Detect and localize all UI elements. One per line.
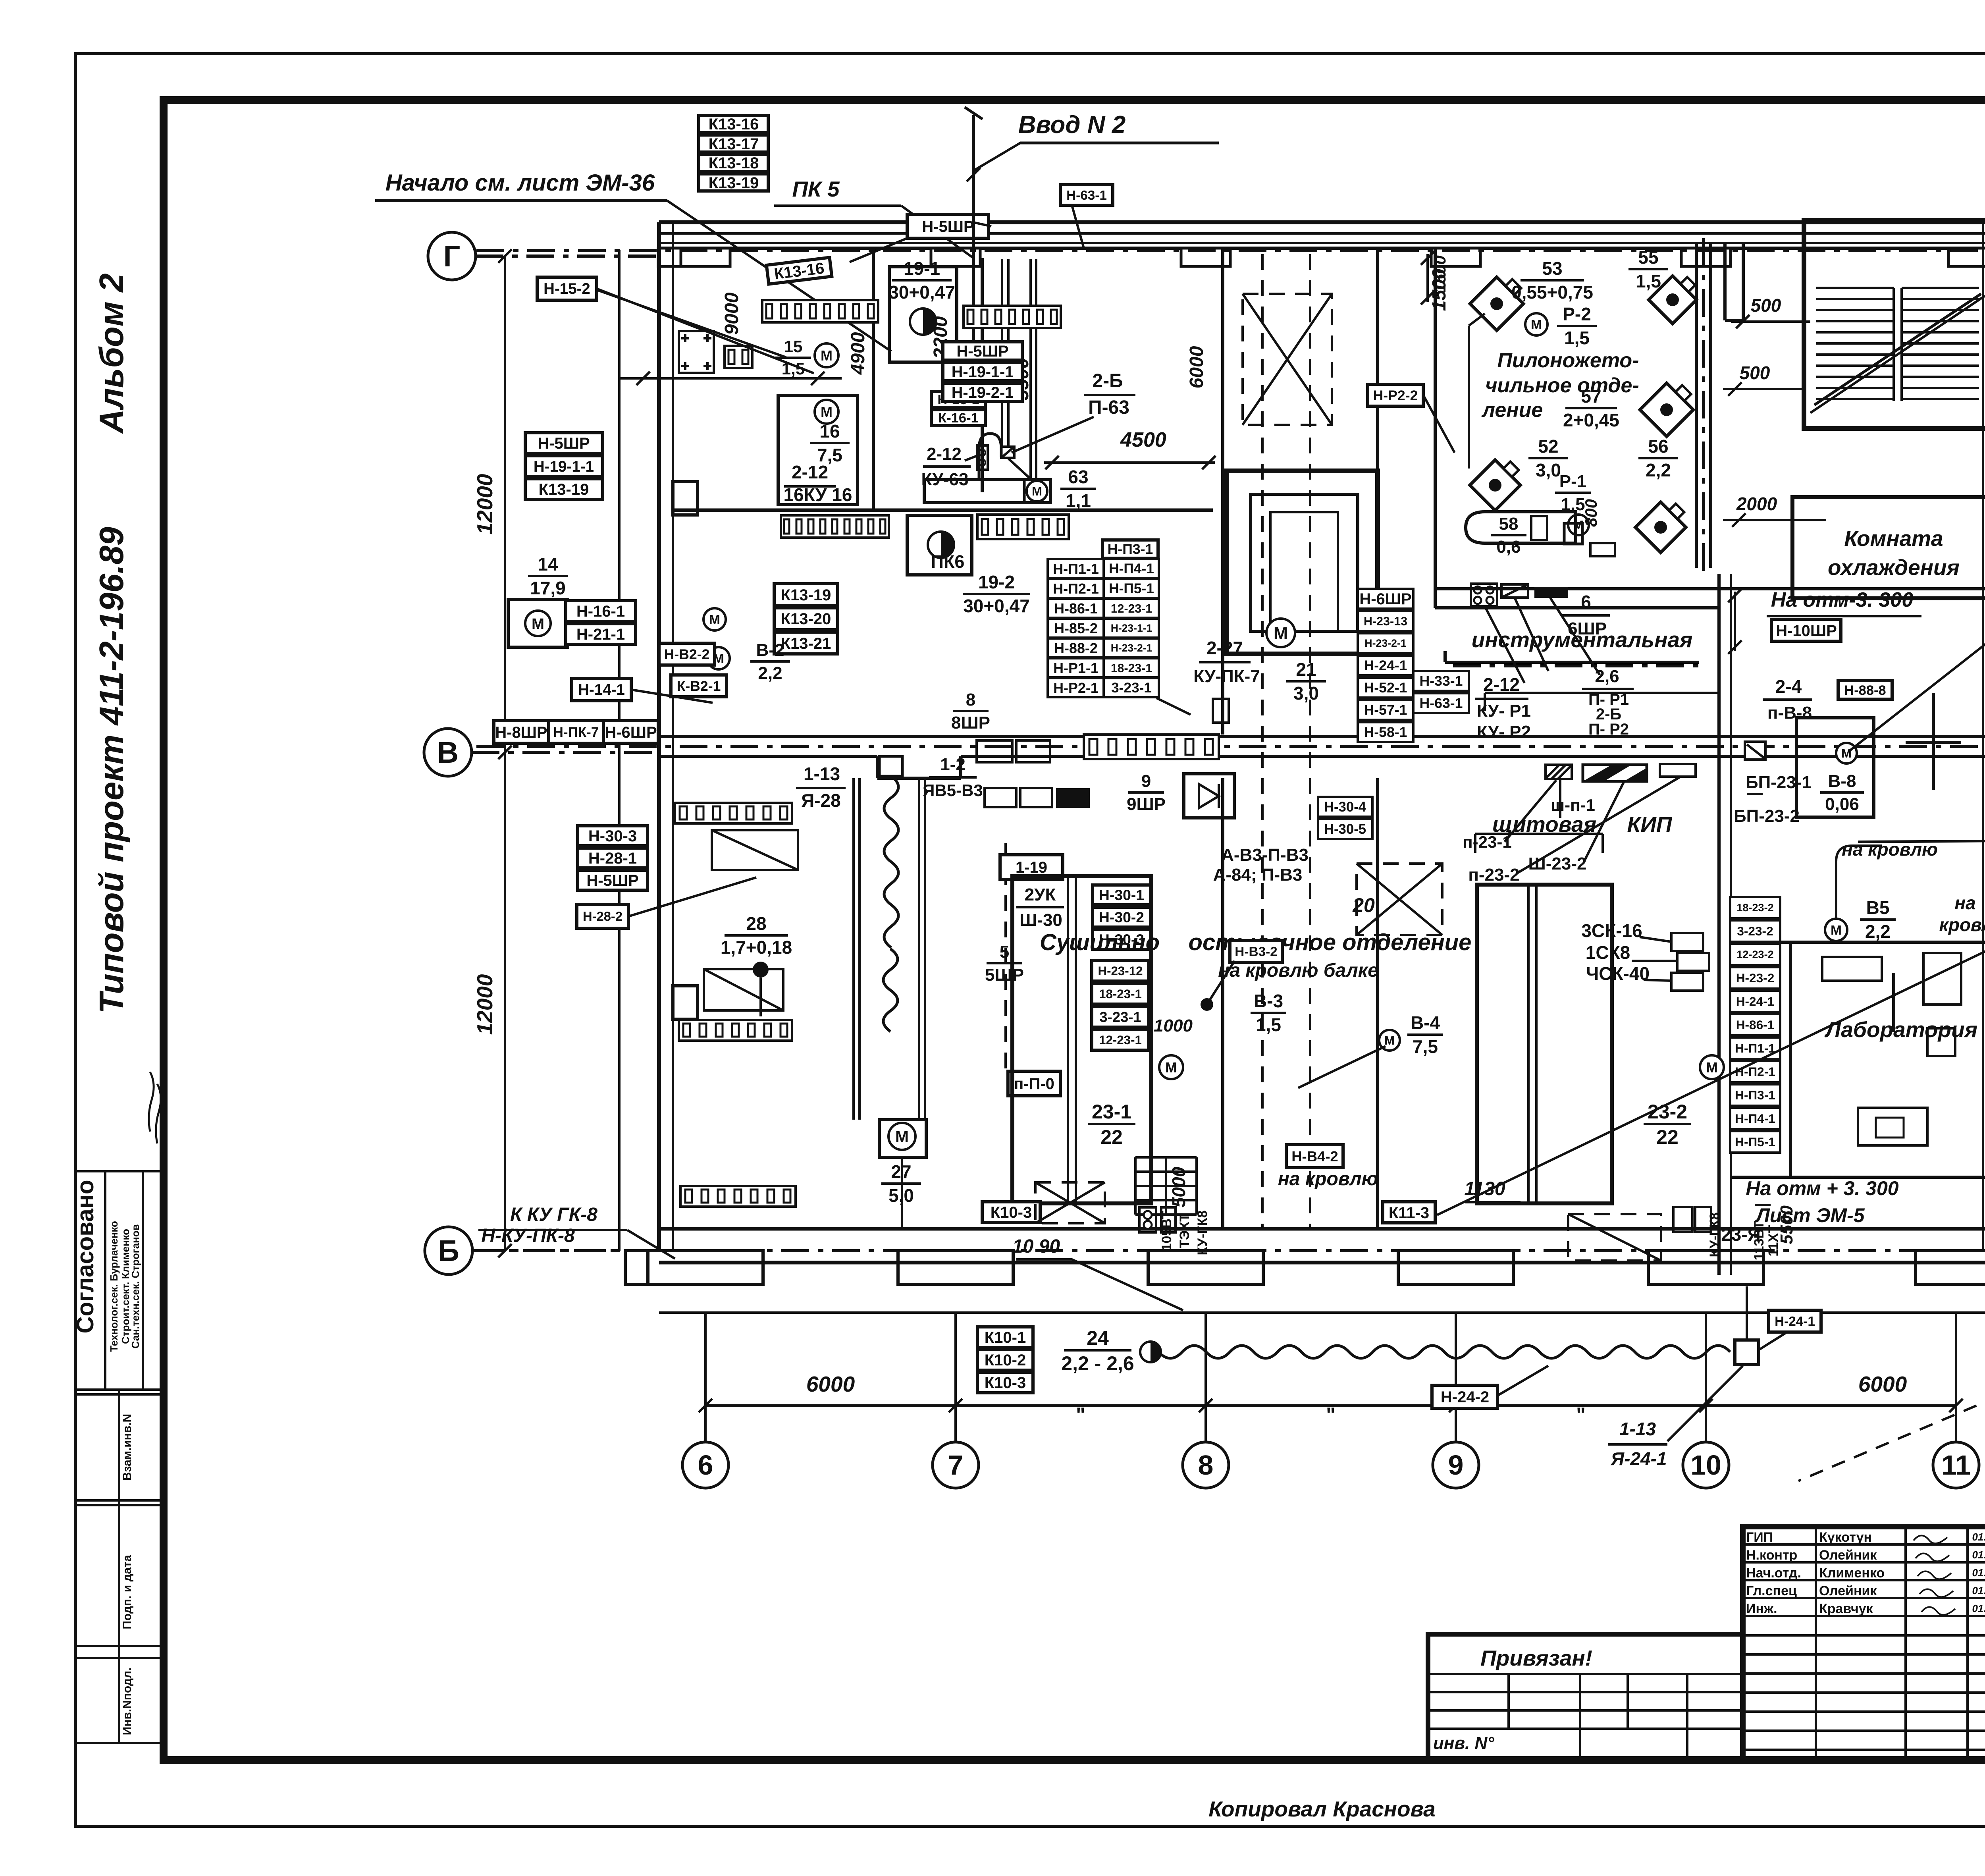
- svg-text:К-16-1: К-16-1: [938, 411, 979, 426]
- svg-text:К13-17: К13-17: [709, 135, 759, 153]
- svg-text:на кровлю: на кровлю: [1278, 1168, 1378, 1190]
- svg-text:Н-24-1: Н-24-1: [1364, 657, 1407, 673]
- svg-text:Н-П5-1: Н-П5-1: [1109, 581, 1154, 596]
- svg-text:М: М: [532, 615, 544, 632]
- svg-text:Н-24-2: Н-24-2: [1441, 1388, 1489, 1406]
- svg-text:К13-21: К13-21: [781, 635, 831, 652]
- svg-text:ление: ление: [1481, 399, 1543, 422]
- svg-text:Ш-23-2: Ш-23-2: [1528, 854, 1587, 873]
- svg-text:на: на: [1954, 893, 1975, 913]
- svg-text:3,0: 3,0: [1536, 460, 1561, 480]
- svg-text:6000: 6000: [806, 1372, 855, 1396]
- svg-text:ш-п-1: ш-п-1: [1551, 796, 1595, 814]
- svg-text:К КУ ГК-8: К КУ ГК-8: [510, 1204, 597, 1225]
- svg-text:56: 56: [1648, 436, 1668, 457]
- svg-text:Н-86-1: Н-86-1: [1054, 600, 1098, 617]
- svg-text:на кровлю балке: на кровлю балке: [1218, 960, 1378, 981]
- svg-text:01.89: 01.89: [1972, 1585, 1985, 1596]
- svg-text:Н-63-1: Н-63-1: [1066, 188, 1107, 203]
- svg-text:Н-30-3: Н-30-3: [588, 827, 637, 845]
- svg-text:2,6: 2,6: [1595, 667, 1619, 686]
- svg-text:2-12: 2-12: [1483, 674, 1520, 695]
- svg-text:4500: 4500: [1120, 428, 1166, 451]
- svg-text:ПК6: ПК6: [931, 551, 965, 572]
- svg-text:Н-Р1-1: Н-Р1-1: [1053, 660, 1098, 676]
- svg-text:п-П-0: п-П-0: [1014, 1075, 1054, 1093]
- svg-text:КУ- Р1: КУ- Р1: [1477, 701, 1531, 721]
- svg-text:Н-15-2: Н-15-2: [543, 280, 590, 297]
- svg-text:кровле: кровле: [1939, 914, 1985, 935]
- svg-text:Н-19-1-1: Н-19-1-1: [952, 363, 1014, 381]
- svg-text:Р-2: Р-2: [1563, 304, 1591, 324]
- svg-text:Типовой проект 411-2-196.89: Типовой проект 411-2-196.89: [93, 527, 131, 1014]
- svg-text:На отм-3. 300: На отм-3. 300: [1771, 588, 1914, 611]
- svg-text:Технолог.сек. Бурлаченко: Технолог.сек. Бурлаченко: [108, 1221, 120, 1352]
- svg-text:БП-23-1: БП-23-1: [1746, 773, 1812, 792]
- svg-text:17,9: 17,9: [530, 578, 566, 598]
- svg-text:КУ-ГК8: КУ-ГК8: [1195, 1210, 1210, 1255]
- svg-text:ПК 5: ПК 5: [792, 177, 840, 201]
- svg-text:Копировал Краснова: Копировал Краснова: [1208, 1797, 1435, 1821]
- svg-text:16КУ 16: 16КУ 16: [784, 484, 852, 505]
- svg-text:8: 8: [966, 690, 975, 710]
- svg-text:Нач.отд.: Нач.отд.: [1746, 1566, 1801, 1581]
- svg-text:1-13: 1-13: [804, 764, 840, 784]
- svg-text:11: 11: [1941, 1450, 1971, 1481]
- svg-text:7: 7: [948, 1450, 964, 1481]
- svg-text:Н-П3-1: Н-П3-1: [1108, 541, 1153, 557]
- svg-text:М: М: [1841, 746, 1852, 760]
- svg-text:Н-85-2: Н-85-2: [1054, 620, 1098, 636]
- svg-text:КУ-ПК-7: КУ-ПК-7: [1193, 667, 1260, 686]
- svg-text:М: М: [1831, 923, 1842, 938]
- svg-text:Н-52-1: Н-52-1: [1364, 680, 1407, 696]
- svg-text:Начало см. лист ЭМ-36: Начало см. лист ЭМ-36: [385, 170, 655, 196]
- svg-text:п-В-8: п-В-8: [1767, 703, 1812, 723]
- svg-text:5: 5: [1000, 942, 1009, 962]
- svg-text:инв. N°: инв. N°: [1433, 1733, 1494, 1753]
- svg-text:Кукотун: Кукотун: [1819, 1530, 1872, 1545]
- svg-text:Н-6ШР: Н-6ШР: [1359, 590, 1411, 608]
- svg-text:1,7+0,18: 1,7+0,18: [721, 937, 792, 958]
- svg-text:Согласовано: Согласовано: [72, 1180, 98, 1333]
- svg-text:А-В3-П-В3: А-В3-П-В3: [1221, 845, 1309, 865]
- svg-text:3,0: 3,0: [1293, 683, 1319, 704]
- svg-text:0,55+0,75: 0,55+0,75: [1511, 282, 1593, 303]
- svg-text:К13-19: К13-19: [781, 586, 831, 604]
- svg-text:Ввод N 2: Ввод N 2: [1018, 111, 1126, 139]
- svg-text:Н-19-2-1: Н-19-2-1: [952, 384, 1014, 401]
- svg-text:18-23-1: 18-23-1: [1111, 662, 1152, 675]
- svg-text:М: М: [1032, 484, 1042, 498]
- svg-text:30+0,47: 30+0,47: [888, 282, 955, 303]
- svg-text:Н-14-1: Н-14-1: [578, 681, 625, 698]
- svg-text:": ": [1076, 1404, 1085, 1426]
- svg-text:20: 20: [1352, 894, 1375, 916]
- svg-text:2-Б: 2-Б: [1092, 370, 1123, 391]
- svg-text:21: 21: [1296, 659, 1316, 680]
- svg-text:3-23-2: 3-23-2: [1737, 924, 1773, 938]
- svg-text:П-63: П-63: [1088, 397, 1129, 418]
- svg-text:Н-В2-2: Н-В2-2: [664, 646, 710, 662]
- svg-text:М: М: [1531, 318, 1542, 332]
- svg-text:Н-23-2-1: Н-23-2-1: [1111, 642, 1152, 654]
- svg-text:ЧСК-40: ЧСК-40: [1586, 963, 1650, 984]
- svg-text:К10-3: К10-3: [991, 1204, 1032, 1221]
- svg-text:Н-24-1: Н-24-1: [1736, 994, 1775, 1008]
- svg-text:2+0,45: 2+0,45: [1563, 410, 1619, 430]
- svg-text:Олейник: Олейник: [1819, 1548, 1877, 1563]
- svg-text:К13-16: К13-16: [709, 116, 759, 133]
- svg-text:Н-30-5: Н-30-5: [1324, 822, 1366, 837]
- svg-text:55: 55: [1638, 247, 1658, 268]
- svg-text:3-23-1: 3-23-1: [1099, 1009, 1141, 1025]
- svg-text:Н-П2-1: Н-П2-1: [1735, 1064, 1775, 1079]
- svg-text:Инж.: Инж.: [1746, 1601, 1777, 1616]
- svg-text:53: 53: [1542, 258, 1562, 279]
- svg-text:К13-18: К13-18: [709, 154, 759, 172]
- svg-text:Н-28-1: Н-28-1: [588, 850, 637, 867]
- svg-text:М: М: [709, 613, 720, 627]
- svg-text:1130: 1130: [1464, 1178, 1505, 1199]
- svg-text:ГИП: ГИП: [1746, 1530, 1773, 1545]
- svg-text:П- Р2: П- Р2: [1588, 721, 1629, 738]
- svg-text:Н-23-2-1: Н-23-2-1: [1364, 637, 1407, 649]
- svg-text:Н-21-1: Н-21-1: [576, 626, 625, 643]
- svg-text:Н-10ШР: Н-10ШР: [1776, 622, 1837, 640]
- svg-text:Н-П1-1: Н-П1-1: [1735, 1041, 1775, 1055]
- svg-text:Н-П2-1: Н-П2-1: [1053, 580, 1099, 597]
- svg-text:Н-П4-1: Н-П4-1: [1735, 1111, 1775, 1126]
- svg-text:500: 500: [1740, 362, 1770, 383]
- svg-text:Инв.Nподл.: Инв.Nподл.: [121, 1668, 134, 1735]
- svg-text:63: 63: [1068, 467, 1088, 487]
- svg-text:2-4: 2-4: [1775, 676, 1802, 697]
- svg-text:6: 6: [1581, 592, 1591, 612]
- svg-text:Н-В4-2: Н-В4-2: [1291, 1148, 1338, 1165]
- svg-text:Р-1: Р-1: [1559, 472, 1586, 491]
- svg-text:3СК-16: 3СК-16: [1581, 920, 1642, 941]
- svg-text:01.89: 01.89: [1972, 1531, 1985, 1543]
- svg-text:24: 24: [1087, 1327, 1109, 1349]
- svg-text:чильное отде-: чильное отде-: [1485, 374, 1639, 397]
- svg-text:В: В: [437, 736, 459, 769]
- svg-text:19-1: 19-1: [904, 258, 940, 279]
- svg-text:2-12: 2-12: [792, 462, 828, 482]
- svg-text:1000: 1000: [1154, 1016, 1193, 1035]
- svg-text:5ШР: 5ШР: [985, 965, 1024, 985]
- svg-text:М: М: [1384, 1033, 1395, 1047]
- svg-text:01.89: 01.89: [1972, 1549, 1985, 1561]
- svg-text:8ШР: 8ШР: [951, 713, 990, 733]
- svg-text:Г: Г: [443, 239, 461, 273]
- svg-text:Н-КУ-ПК-8: Н-КУ-ПК-8: [481, 1225, 575, 1246]
- svg-text:1-2: 1-2: [940, 755, 966, 774]
- svg-text:12000: 12000: [472, 974, 497, 1035]
- svg-text:Кравчук: Кравчук: [1819, 1601, 1873, 1616]
- svg-text:2,2: 2,2: [758, 663, 782, 683]
- svg-text:500: 500: [1751, 295, 1781, 316]
- svg-text:Я-28: Я-28: [801, 790, 841, 811]
- svg-text:Н-ПК-7: Н-ПК-7: [553, 725, 599, 740]
- svg-text:Н-П5-1: Н-П5-1: [1735, 1135, 1775, 1149]
- svg-text:1,5: 1,5: [1564, 328, 1590, 348]
- svg-text:Сан.техн.сек. Строганов: Сан.техн.сек. Строганов: [129, 1224, 141, 1348]
- svg-text:Н-19-1-1: Н-19-1-1: [534, 458, 594, 475]
- svg-text:18-23-2: 18-23-2: [1736, 901, 1773, 914]
- svg-text:12-23-2: 12-23-2: [1736, 948, 1773, 960]
- svg-text:6: 6: [698, 1450, 713, 1481]
- svg-text:0,06: 0,06: [1825, 794, 1859, 814]
- svg-text:9: 9: [1448, 1450, 1464, 1481]
- svg-text:Н-30-4: Н-30-4: [1324, 800, 1366, 815]
- svg-text:Н-П1-1: Н-П1-1: [1053, 561, 1099, 577]
- svg-text:Н-В3-2: Н-В3-2: [1235, 945, 1277, 959]
- svg-text:Подп. и дата: Подп. и дата: [121, 1555, 134, 1629]
- svg-text:ТЭХТ: ТЭХТ: [1177, 1213, 1192, 1248]
- svg-text:113ВТ: 113ВТ: [1752, 1221, 1767, 1260]
- svg-text:В-8: В-8: [1828, 771, 1856, 791]
- svg-text:Н-6ШР: Н-6ШР: [605, 724, 657, 741]
- svg-text:Н-П3-1: Н-П3-1: [1735, 1088, 1775, 1102]
- svg-text:Н-5ШР: Н-5ШР: [586, 872, 638, 889]
- svg-text:Н-5ШР: Н-5ШР: [538, 435, 590, 452]
- svg-text:58: 58: [1499, 514, 1519, 534]
- svg-text:1,5: 1,5: [1636, 271, 1661, 291]
- svg-text:Н-63-1: Н-63-1: [1420, 695, 1463, 711]
- svg-text:Гл.спец: Гл.спец: [1746, 1583, 1797, 1598]
- svg-text:10: 10: [1690, 1450, 1721, 1481]
- svg-text:2-27: 2-27: [1206, 638, 1243, 658]
- svg-text:01.89: 01.89: [1972, 1567, 1985, 1579]
- svg-text:Олейник: Олейник: [1819, 1583, 1877, 1598]
- svg-text:Н-33-1: Н-33-1: [1420, 673, 1463, 689]
- svg-text:0,6: 0,6: [1496, 537, 1521, 557]
- svg-text:2УК: 2УК: [1025, 885, 1056, 904]
- svg-text:800: 800: [1582, 499, 1600, 527]
- svg-text:Я-24-1: Я-24-1: [1611, 1448, 1667, 1469]
- svg-text:В-4: В-4: [1411, 1012, 1440, 1033]
- svg-text:28: 28: [746, 913, 766, 934]
- svg-text:Н-28-2: Н-28-2: [583, 909, 622, 924]
- svg-text:Н-5ШР: Н-5ШР: [922, 218, 974, 235]
- svg-text:Н-58-1: Н-58-1: [1364, 724, 1407, 740]
- svg-text:12-23-1: 12-23-1: [1099, 1033, 1142, 1047]
- svg-text:2,2: 2,2: [1865, 921, 1891, 942]
- svg-text:Н-88-8: Н-88-8: [1844, 683, 1886, 698]
- svg-text:К10-3: К10-3: [985, 1374, 1026, 1392]
- svg-text:2,2: 2,2: [1646, 460, 1671, 480]
- svg-text:12000: 12000: [472, 474, 497, 534]
- svg-text:Н-23-13: Н-23-13: [1364, 615, 1407, 628]
- svg-text:Н.контр: Н.контр: [1746, 1548, 1797, 1563]
- svg-text:К13-20: К13-20: [781, 610, 831, 628]
- svg-text:15: 15: [784, 337, 803, 356]
- svg-text:7,5: 7,5: [1413, 1036, 1438, 1057]
- svg-text:23-1: 23-1: [1092, 1101, 1131, 1123]
- svg-text:Комната: Комната: [1844, 526, 1943, 551]
- svg-text:К-В2-1: К-В2-1: [677, 678, 721, 694]
- svg-text:Н-88-2: Н-88-2: [1054, 640, 1098, 656]
- svg-text:Взам.инв.N: Взам.инв.N: [121, 1414, 134, 1481]
- svg-text:1,5: 1,5: [1256, 1014, 1281, 1035]
- svg-text:М: М: [1274, 624, 1288, 643]
- svg-text:Н-П4-1: Н-П4-1: [1109, 561, 1154, 576]
- svg-text:М: М: [821, 404, 833, 420]
- svg-text:Н-23-1-1: Н-23-1-1: [1111, 622, 1152, 634]
- svg-text:КУ- Р2: КУ- Р2: [1477, 722, 1531, 742]
- svg-text:2000: 2000: [1736, 494, 1777, 514]
- svg-text:14: 14: [538, 554, 558, 575]
- svg-text:К11-3: К11-3: [1389, 1204, 1429, 1222]
- svg-text:М: М: [1165, 1059, 1177, 1076]
- svg-text:2,2 - 2,6: 2,2 - 2,6: [1061, 1352, 1134, 1375]
- svg-text:": ": [1326, 1404, 1336, 1426]
- svg-text:3-23-1: 3-23-1: [1111, 680, 1152, 696]
- svg-text:К13-19: К13-19: [709, 174, 759, 192]
- svg-text:А-84; П-В3: А-84; П-В3: [1213, 865, 1303, 885]
- svg-text:Ш-30: Ш-30: [1019, 910, 1062, 930]
- svg-text:16: 16: [819, 421, 840, 442]
- svg-text:охлаждения: охлаждения: [1828, 555, 1960, 580]
- svg-text:22: 22: [1100, 1126, 1123, 1148]
- svg-text:Н-30-1: Н-30-1: [1099, 887, 1144, 903]
- svg-text:01.89: 01.89: [1972, 1602, 1985, 1614]
- svg-text:К10-1: К10-1: [985, 1329, 1026, 1346]
- svg-text:1-13: 1-13: [1619, 1419, 1656, 1439]
- svg-text:2-12: 2-12: [927, 444, 962, 464]
- svg-text:9ШР: 9ШР: [1127, 794, 1166, 814]
- svg-text:12-23-1: 12-23-1: [1111, 602, 1152, 615]
- svg-text:Клименко: Клименко: [1819, 1566, 1885, 1581]
- svg-text:Привязан!: Привязан!: [1480, 1646, 1592, 1670]
- svg-text:Сушильно: Сушильно: [1040, 929, 1160, 955]
- svg-text:Н-23-2: Н-23-2: [1736, 971, 1775, 985]
- svg-text:В5: В5: [1866, 897, 1890, 918]
- svg-text:6000: 6000: [1858, 1372, 1907, 1396]
- svg-text:Н-23-12: Н-23-12: [1098, 964, 1143, 978]
- svg-text:Н-30-2: Н-30-2: [1099, 909, 1144, 925]
- svg-text:1,1: 1,1: [1066, 490, 1091, 511]
- svg-text:Пилоножето-: Пилоножето-: [1497, 349, 1639, 372]
- svg-text:ЯВ5-В3: ЯВ5-В3: [923, 781, 983, 800]
- svg-text:1-19: 1-19: [1016, 859, 1047, 876]
- svg-text:На отм + 3. 300: На отм + 3. 300: [1746, 1177, 1898, 1199]
- svg-text:п-23-2: п-23-2: [1468, 865, 1519, 885]
- svg-text:6000: 6000: [1186, 346, 1207, 388]
- svg-text:Лист ЭМ-5: Лист ЭМ-5: [1755, 1204, 1865, 1226]
- svg-text:Н-86-1: Н-86-1: [1736, 1018, 1775, 1032]
- svg-text:4900: 4900: [848, 332, 869, 375]
- svg-text:М: М: [1706, 1059, 1718, 1076]
- svg-text:В-3: В-3: [1254, 991, 1283, 1011]
- svg-text:18-23-1: 18-23-1: [1099, 987, 1142, 1001]
- svg-text:М: М: [821, 347, 833, 364]
- svg-text:п-23-1: п-23-1: [1463, 833, 1511, 851]
- svg-text:КУ-ГК8: КУ-ГК8: [1707, 1212, 1722, 1257]
- svg-text:Н-57-1: Н-57-1: [1364, 702, 1407, 718]
- svg-text:57: 57: [1581, 386, 1601, 407]
- svg-text:9: 9: [1141, 771, 1151, 791]
- svg-text:9000: 9000: [721, 292, 742, 335]
- svg-text:8: 8: [1198, 1450, 1214, 1481]
- svg-text:К10-2: К10-2: [985, 1352, 1026, 1369]
- svg-text:КИП: КИП: [1627, 812, 1673, 837]
- svg-text:Альбом 2: Альбом 2: [93, 273, 131, 434]
- svg-text:Н-Р2-2: Н-Р2-2: [1373, 388, 1418, 403]
- svg-text:М: М: [895, 1128, 909, 1146]
- svg-text:22: 22: [1656, 1126, 1679, 1148]
- svg-text:Н-5ШР: Н-5ШР: [956, 343, 1008, 360]
- svg-text:Н-8ШР: Н-8ШР: [495, 724, 547, 741]
- svg-text:10 90: 10 90: [1012, 1236, 1060, 1257]
- svg-text:Н-24-1: Н-24-1: [1775, 1314, 1815, 1329]
- svg-text:К13-19: К13-19: [539, 481, 589, 498]
- svg-text:1500: 1500: [1430, 255, 1449, 292]
- svg-text:52: 52: [1538, 436, 1558, 457]
- svg-text:В-2: В-2: [756, 640, 784, 660]
- svg-text:": ": [1576, 1404, 1586, 1426]
- svg-text:30+0,47: 30+0,47: [963, 596, 1030, 616]
- svg-text:БП-23-2: БП-23-2: [1734, 806, 1800, 826]
- svg-text:1СК8: 1СК8: [1586, 942, 1630, 963]
- svg-text:19-2: 19-2: [978, 572, 1015, 592]
- svg-text:Н-16-1: Н-16-1: [576, 603, 625, 620]
- svg-text:Н-Р2-1: Н-Р2-1: [1053, 680, 1098, 696]
- svg-text:Б: Б: [438, 1234, 459, 1267]
